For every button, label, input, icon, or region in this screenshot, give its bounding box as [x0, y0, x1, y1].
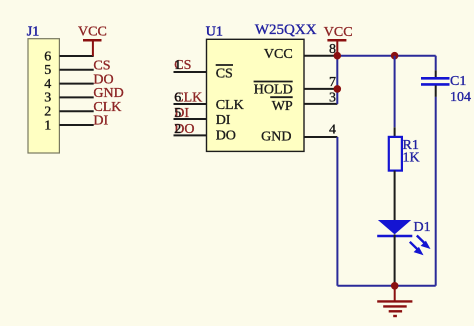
chip U1 body [207, 39, 305, 151]
junction at pin 8 [334, 52, 342, 60]
capacitor C1 [421, 70, 450, 97]
power symbol VCC at J1 [78, 25, 107, 57]
svg-text:D1: D1 [414, 220, 431, 235]
svg-text:GND: GND [93, 86, 123, 101]
svg-text:CLK: CLK [93, 100, 121, 115]
junction at ground [391, 282, 399, 290]
svg-text:GND: GND [261, 130, 291, 145]
svg-text:CS: CS [216, 67, 233, 82]
wire U1 pin CS [174, 71, 207, 73]
svg-text:5: 5 [44, 63, 51, 78]
svg-text:W25QXX: W25QXX [255, 22, 317, 38]
svg-text:CS: CS [93, 59, 110, 74]
wire J1 pin 5 [59, 69, 93, 71]
resistor R1 [389, 127, 402, 220]
wire U1 pin CLK [174, 103, 207, 105]
junction at pin 7 [334, 85, 342, 93]
svg-text:DO: DO [216, 129, 236, 144]
svg-text:J1: J1 [27, 25, 39, 40]
wire R1 branch vertical [394, 56, 396, 128]
svg-text:VCC: VCC [264, 47, 293, 62]
svg-text:U1: U1 [206, 25, 223, 40]
LED emission arrow 1 [417, 236, 431, 250]
svg-text:4: 4 [44, 77, 51, 92]
svg-text:VCC: VCC [324, 25, 353, 40]
wire U1 pin DI [174, 118, 207, 120]
wire U1 pin WP (3) [304, 103, 337, 105]
svg-text:1: 1 [174, 58, 181, 73]
svg-text:4: 4 [329, 123, 336, 138]
wire U1 pin GND (4) [304, 136, 337, 138]
power symbol VCC at U1 pin 8 [324, 25, 353, 56]
svg-text:CLK: CLK [216, 98, 244, 113]
svg-text:WP: WP [272, 99, 293, 114]
svg-text:1: 1 [44, 118, 51, 133]
ground symbol [377, 286, 412, 316]
junction at R1 branch [391, 52, 399, 60]
svg-text:3: 3 [44, 91, 51, 106]
connector J1 body [28, 39, 59, 153]
LED D1 [377, 220, 412, 286]
wire U1 pin HOLD (7) [304, 88, 337, 90]
wire U1 pin DO [174, 134, 207, 136]
svg-text:C1: C1 [450, 74, 466, 89]
wire U1 pin VCC (8) [304, 55, 337, 57]
svg-text:104: 104 [450, 90, 471, 105]
wire VCC top rail [337, 55, 435, 57]
pin name HOLD with overline [254, 82, 293, 98]
svg-text:2: 2 [174, 122, 181, 137]
svg-text:6: 6 [174, 90, 181, 105]
wire GND vertical from pin 4 [336, 137, 338, 286]
wire J1 pin 6 [59, 55, 93, 57]
pin name CS with overline [216, 65, 233, 82]
svg-text:DO: DO [93, 72, 113, 87]
svg-text:DI: DI [216, 113, 231, 128]
svg-text:5: 5 [174, 106, 181, 121]
svg-text:DI: DI [93, 114, 108, 129]
svg-text:3: 3 [329, 90, 336, 105]
wire vertical to pins 7 and 3 [336, 56, 338, 104]
pin name WP with overline [270, 97, 293, 114]
svg-text:2: 2 [44, 105, 51, 120]
wire C1 vertical upper [435, 56, 437, 71]
wire J1 pin 2 [59, 110, 93, 112]
wire J1 pin 4 [59, 83, 93, 85]
svg-text:6: 6 [44, 49, 51, 64]
wire J1 pin 1 [59, 124, 93, 126]
wire C1 vertical lower [435, 97, 437, 286]
svg-text:HOLD: HOLD [254, 83, 293, 98]
svg-text:VCC: VCC [78, 25, 107, 40]
wire J1 pin 3 [59, 96, 93, 98]
LED emission arrow 2 [410, 242, 424, 255]
svg-text:1K: 1K [403, 151, 420, 166]
wire bottom rail [337, 285, 435, 287]
